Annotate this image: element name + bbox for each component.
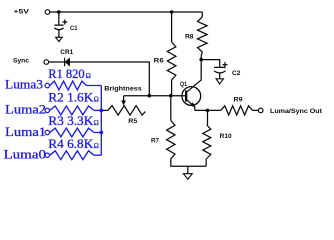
svg-text:R4 6.8K: R4 6.8K xyxy=(48,137,93,151)
svg-text:R1 820: R1 820 xyxy=(48,67,84,81)
svg-text:Luma/Sync Out: Luma/Sync Out xyxy=(270,108,323,115)
svg-text:Ω: Ω xyxy=(94,141,99,150)
svg-text:+5V: +5V xyxy=(14,9,31,16)
svg-text:Ω: Ω xyxy=(94,118,99,127)
svg-text:CR1: CR1 xyxy=(60,49,74,56)
svg-text:Brightness: Brightness xyxy=(104,85,142,92)
svg-text:R5: R5 xyxy=(128,118,138,125)
svg-text:Luma1: Luma1 xyxy=(5,125,46,139)
svg-text:R3 3.3K: R3 3.3K xyxy=(48,114,93,128)
svg-text:Q1: Q1 xyxy=(180,81,187,88)
svg-text:Luma0: Luma0 xyxy=(4,148,47,162)
svg-text:R9: R9 xyxy=(234,97,244,104)
svg-text:R8: R8 xyxy=(185,33,194,40)
svg-text:R10: R10 xyxy=(220,133,233,140)
svg-text:C2: C2 xyxy=(232,70,241,77)
svg-text:R2 1.6K: R2 1.6K xyxy=(48,91,93,105)
svg-text:Sync: Sync xyxy=(13,58,30,65)
svg-text:Ω: Ω xyxy=(86,71,91,80)
svg-text:Ω: Ω xyxy=(94,95,99,104)
svg-text:Luma2: Luma2 xyxy=(5,102,46,116)
svg-text:R7: R7 xyxy=(151,138,159,145)
svg-text:R6: R6 xyxy=(154,58,165,65)
svg-text:Luma3: Luma3 xyxy=(5,77,43,91)
svg-text:C1: C1 xyxy=(70,25,78,32)
